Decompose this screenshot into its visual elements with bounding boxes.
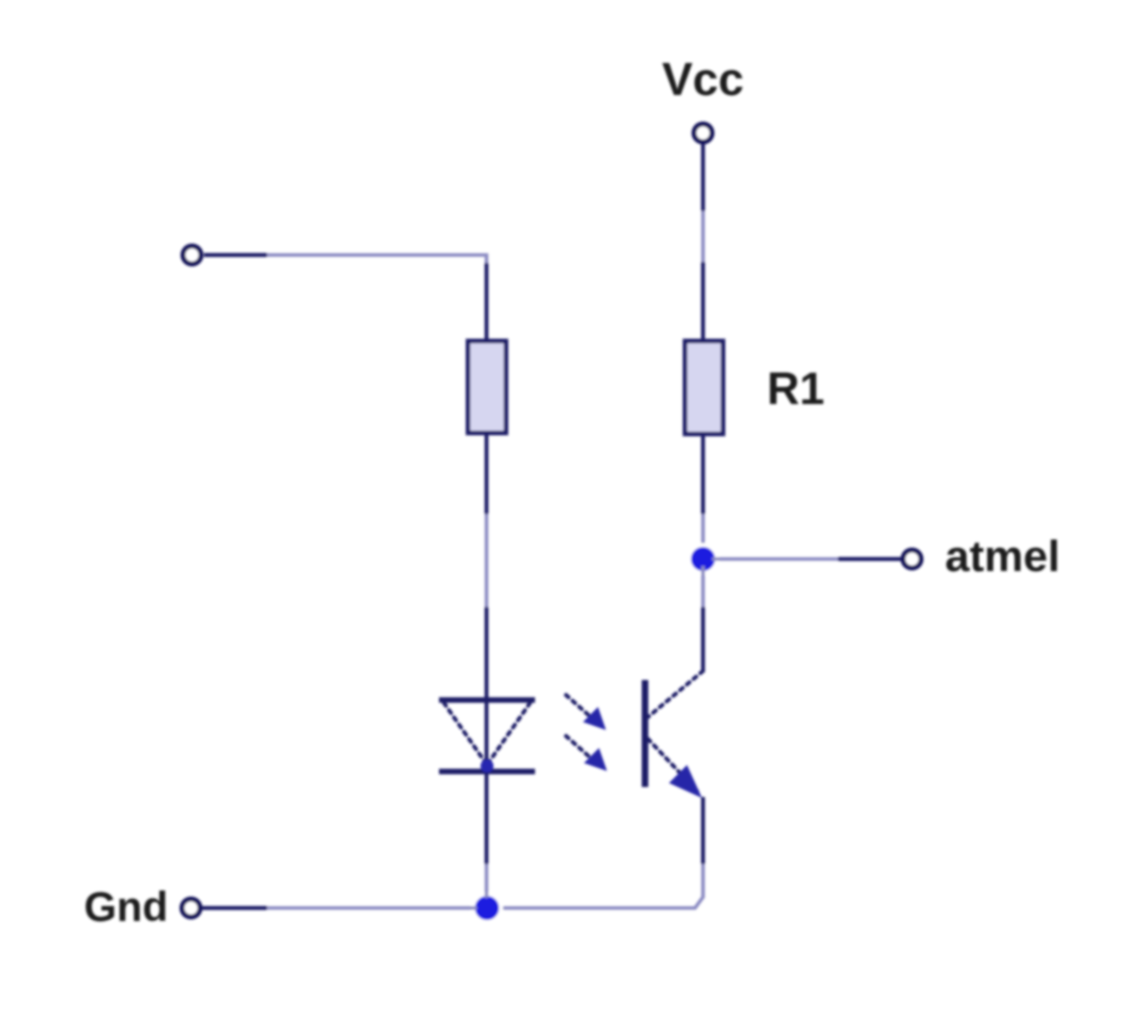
transistor Q1 base bar [642,680,649,787]
wire Vcc terminal stub (navy) [701,144,705,211]
wire Vcc to R1 (lavender) [701,211,705,262]
wire input terminal stub (navy) [204,253,267,257]
LED D1 triangle right edge [489,703,530,762]
svg-text:atmel: atmel [945,532,1060,581]
node junction J2 halo [471,892,503,924]
light arrow 2 head [584,748,607,771]
wire node to atmel (lavender) [712,557,838,561]
terminal pin input (top left) [183,246,201,264]
wire through LED (navy) [485,701,489,864]
LED apex node dot [481,760,494,773]
wire input to corner (lavender) [267,255,487,263]
resistor R2 (left, unlabeled) [468,341,506,433]
wire atmel terminal stub (navy) [838,557,903,561]
transistor Q1 collector diagonal [648,671,703,717]
wire R2 top pin stub (navy) [485,263,489,341]
light arrow 2 shaft [566,736,593,760]
wire emitter stub (navy) [701,797,705,864]
terminal pin Gnd [182,899,200,917]
wire R1 top pin stub (navy) [701,262,705,341]
wire R1 to node (lavender) [701,514,705,552]
wire Gnd terminal stub (navy) [202,906,267,910]
wire ground rail left (lavender) [267,906,477,910]
svg-text:Gnd: Gnd [84,883,168,930]
LED D1 anode bar [439,697,535,703]
light arrow 1 shaft [566,695,593,719]
resistor R1 [685,341,723,434]
transistor Q1 emitter diagonal [648,739,697,791]
svg-text:R1: R1 [767,363,825,414]
node junction J1 [691,547,715,571]
LED D1 triangle left edge [444,703,485,762]
svg-text:Vcc: Vcc [662,53,744,105]
transistor Q1 emitter arrowhead [669,765,702,798]
wire R2 to LED (lavender) [485,514,489,607]
wire R2 bottom pin stub (navy) [485,433,489,514]
wire LED to ground node (lavender) [485,864,489,898]
wire R1 bottom pin stub (navy) [701,434,705,514]
light arrow 1 head [583,707,606,730]
wire LED top pin stub (navy) [485,607,489,701]
wire node to transistor collector (lavender) [701,566,705,607]
wire emitter to ground rail (lavender, rounded corner) [497,864,703,908]
terminal pin Vcc [694,124,712,142]
node junction J2 [475,896,499,920]
wire collector stub (navy) [701,607,705,671]
terminal pin atmel [903,550,921,568]
LED D1 cathode bar [439,769,535,775]
node junction J1 halo [687,543,719,575]
